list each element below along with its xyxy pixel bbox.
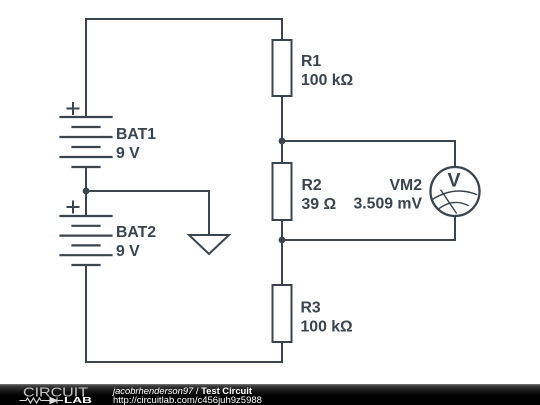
svg-text:V: V bbox=[447, 170, 460, 192]
voltmeter VM2 body bbox=[431, 167, 480, 216]
svg-text:100 kΩ: 100 kΩ bbox=[301, 72, 354, 89]
footer bar bbox=[0, 384, 540, 405]
svg-text:100 kΩ: 100 kΩ bbox=[301, 319, 354, 336]
wire R2 bottom to node B bbox=[281, 220, 283, 240]
VM2 needle bbox=[441, 190, 456, 213]
wire into R1 top bbox=[281, 19, 283, 40]
footer url line bbox=[113, 395, 262, 405]
wire voltmeter bottom to node B bbox=[282, 216, 455, 240]
wire node A to R2 top bbox=[281, 141, 283, 163]
svg-text:39 Ω: 39 Ω bbox=[302, 196, 337, 213]
wire R1 bottom to node A bbox=[281, 96, 283, 141]
footer title line bbox=[113, 385, 252, 396]
VM2 meter scale arc 2 bbox=[439, 202, 468, 208]
node A junction dot bbox=[279, 138, 286, 145]
BAT1 label bbox=[116, 126, 156, 162]
svg-text:BAT1: BAT1 bbox=[116, 126, 156, 143]
node C junction dot bbox=[83, 188, 90, 195]
svg-text:VM2: VM2 bbox=[390, 177, 423, 194]
wire bottom left vertical to BAT2 - terminal bbox=[85, 265, 87, 362]
wire top horizontal bbox=[86, 18, 282, 20]
wire BAT1 bottom to BAT2 top through node C bbox=[85, 167, 87, 216]
logo schematic squiggle bbox=[20, 398, 64, 404]
svg-text:3.509 mV: 3.509 mV bbox=[353, 196, 422, 213]
BAT2 label bbox=[116, 224, 156, 260]
BAT2 plus sign bbox=[68, 202, 79, 213]
R1 label bbox=[301, 53, 354, 89]
resistor R3 bbox=[273, 285, 292, 342]
svg-text:BAT2: BAT2 bbox=[116, 224, 156, 241]
wire R3 bottom to bottom rail bbox=[281, 342, 283, 362]
svg-text:R1: R1 bbox=[301, 53, 321, 70]
wire left side vertical (BAT1 + terminal up) bbox=[85, 19, 87, 117]
CircuitLab logo bbox=[0, 384, 110, 405]
wire bottom horizontal bbox=[86, 361, 282, 363]
node B junction dot bbox=[279, 237, 286, 244]
resistor R2 bbox=[273, 163, 292, 220]
svg-text:R2: R2 bbox=[302, 177, 322, 194]
svg-text:9 V: 9 V bbox=[116, 145, 140, 162]
wire node B to R3 top bbox=[281, 240, 283, 285]
wire node A to voltmeter top bbox=[282, 141, 455, 167]
R2 label bbox=[302, 177, 337, 213]
svg-text:R3: R3 bbox=[301, 300, 321, 317]
BAT1 plus sign bbox=[68, 103, 79, 114]
battery BAT2 bbox=[61, 216, 112, 265]
battery BAT1 bbox=[61, 117, 112, 167]
svg-text:9 V: 9 V bbox=[116, 243, 140, 260]
ground bbox=[189, 235, 229, 254]
R3 label bbox=[301, 300, 354, 336]
svg-text:LAB: LAB bbox=[64, 396, 92, 405]
VM2 label bbox=[353, 177, 422, 213]
resistor R1 bbox=[273, 40, 292, 96]
VM2 meter scale arc 1 bbox=[432, 191, 477, 200]
wire node C to ground bbox=[86, 191, 209, 235]
